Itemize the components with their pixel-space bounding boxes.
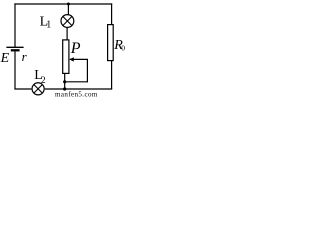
- node junction top (L1 branch): [67, 3, 70, 6]
- svg-text:0: 0: [121, 43, 125, 52]
- wire wiper branch vertical: [86, 59, 88, 82]
- battery E negative plate: [11, 49, 20, 51]
- wire left vertical lower: [14, 51, 16, 89]
- wire L1 stub from top bus: [67, 4, 69, 15]
- node bottom bus junction: [63, 87, 66, 90]
- svg-text:1: 1: [46, 19, 51, 30]
- svg-text:P: P: [70, 40, 81, 57]
- wire left vertical upper: [14, 3, 16, 47]
- lamp L1: [61, 15, 74, 28]
- wire right vertical lower: [111, 61, 113, 89]
- battery E positive plate: [6, 46, 23, 48]
- wire wiper arm: [70, 58, 88, 60]
- wire wiper branch horizontal: [65, 81, 88, 83]
- resistor R0: [108, 25, 114, 61]
- wiper arrowhead: [69, 57, 74, 61]
- wire L1 to potentiometer: [66, 27, 68, 40]
- wire pot bottom lead: [64, 73, 66, 89]
- lamp L2: [32, 83, 44, 95]
- wire bottom left (battery to L2): [14, 88, 31, 90]
- wire right vertical upper: [111, 3, 113, 24]
- svg-text:manfen5.com: manfen5.com: [55, 91, 98, 99]
- node wiper junction: [63, 80, 66, 83]
- wire bottom middle (L2 to junction): [45, 88, 65, 90]
- wire top bus: [14, 3, 112, 5]
- svg-text:E: E: [0, 51, 10, 66]
- svg-text:2: 2: [41, 76, 46, 86]
- wire bottom right (junction to right corner): [65, 88, 113, 90]
- potentiometer P body: [63, 40, 69, 74]
